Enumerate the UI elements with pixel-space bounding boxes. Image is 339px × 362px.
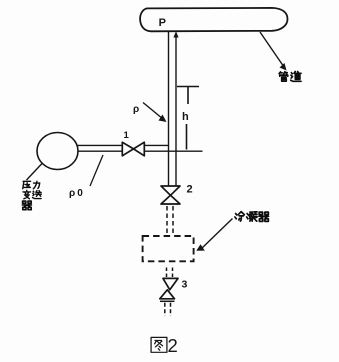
svg-text:1: 1: [124, 130, 130, 141]
svg-text:2: 2: [168, 335, 178, 356]
svg-text:2: 2: [187, 184, 193, 196]
svg-text:3: 3: [182, 278, 188, 290]
svg-text:ρ0: ρ0: [69, 188, 83, 199]
svg-text:h: h: [182, 111, 189, 123]
svg-text:P: P: [159, 17, 166, 29]
svg-text:ρ: ρ: [133, 104, 139, 115]
